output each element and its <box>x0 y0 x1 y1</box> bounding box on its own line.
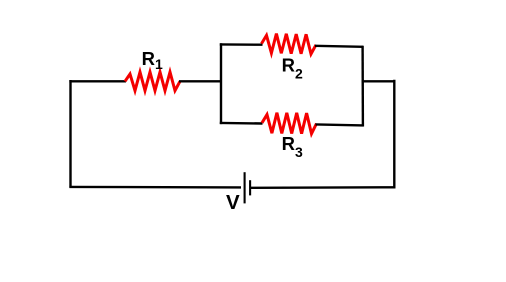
wire left vertical <box>69 80 71 188</box>
svg-text:V: V <box>226 191 240 214</box>
wire bottom branch right stub <box>316 124 364 125</box>
wire top-left horizontal <box>69 80 126 82</box>
wire bottom right segment <box>251 186 396 189</box>
wire right outer vertical <box>393 80 395 189</box>
resistor R2 <box>262 34 317 54</box>
wire bottom branch left stub <box>220 122 263 125</box>
wire parallel-block left vertical <box>220 43 222 124</box>
battery V long plate <box>244 172 246 203</box>
svg-text:R3: R3 <box>282 133 303 160</box>
wire R1 to parallel block <box>179 80 222 82</box>
resistor R1 <box>125 72 180 91</box>
wire top branch right stub <box>315 46 363 47</box>
wire parallel-block right vertical <box>361 46 364 127</box>
svg-text:R1: R1 <box>142 48 163 72</box>
wire block output horizontal <box>362 80 396 82</box>
svg-text:R2: R2 <box>282 54 303 81</box>
wire top branch left stub <box>220 43 263 46</box>
wire bottom left segment <box>69 186 241 189</box>
resistor R3 <box>262 113 317 134</box>
battery V short plate <box>249 180 251 195</box>
